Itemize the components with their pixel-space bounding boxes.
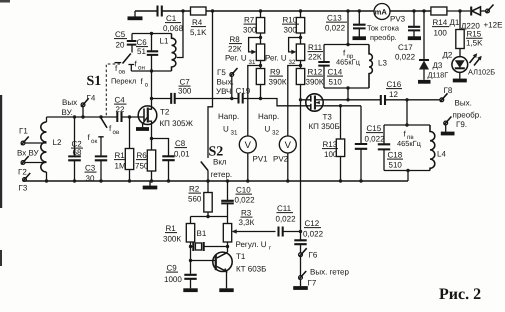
- svg-text:R11: R11: [308, 43, 323, 52]
- svg-text:22: 22: [116, 105, 125, 114]
- svg-text:V: V: [245, 140, 252, 151]
- svg-text:mA: mA: [375, 7, 388, 16]
- svg-text:Г6: Г6: [309, 251, 318, 260]
- ground (C9): [183, 288, 197, 292]
- svg-text:C12: C12: [305, 219, 320, 228]
- terminal G2: [21, 161, 25, 165]
- node R14/D1/R15: [458, 9, 461, 12]
- T3 drain line to C16: [323, 99, 381, 101]
- terminal G8 (Vykh preobr): [440, 98, 444, 102]
- svg-text:L2: L2: [53, 138, 62, 147]
- node R6/rail: [150, 179, 153, 182]
- svg-text:0,068: 0,068: [163, 24, 184, 33]
- resistor R15: [456, 30, 464, 49]
- L3 tank stub to drain line: [347, 88, 349, 100]
- capacitor C14: [323, 45, 325, 63]
- L3 tank top wire: [324, 44, 369, 46]
- L4 tank feed wire: [406, 100, 408, 125]
- svg-text:C7: C7: [180, 78, 191, 87]
- svg-text:R12: R12: [308, 68, 323, 77]
- svg-text:1,5K: 1,5K: [466, 38, 483, 47]
- svg-text:PV3: PV3: [390, 15, 406, 24]
- svg-text:Т1: Т1: [236, 252, 246, 261]
- svg-text:R3: R3: [241, 209, 252, 218]
- crystal B1: [191, 246, 194, 248]
- svg-text:C17: C17: [398, 43, 413, 52]
- node rail/R7: [259, 9, 262, 12]
- inductor L2: [46, 117, 48, 122]
- svg-text:C18: C18: [388, 151, 403, 160]
- node rail/L3 tank: [346, 9, 349, 12]
- svg-text:Перекл: Перекл: [111, 77, 136, 86]
- svg-text:750: 750: [135, 162, 149, 171]
- wire R15 branch: [459, 11, 461, 30]
- node R3/B1/T1 collector: [226, 245, 229, 248]
- terminal G3: [23, 178, 27, 182]
- svg-text:C13: C13: [327, 14, 342, 23]
- svg-text:R8: R8: [230, 35, 241, 44]
- svg-text:1М: 1М: [115, 162, 126, 171]
- scan edge artifacts: [0, 95, 2, 208]
- svg-text:68: 68: [73, 148, 82, 157]
- svg-text:0,022: 0,022: [235, 196, 256, 205]
- capacitor C1: [158, 6, 162, 17]
- svg-text:R14: R14: [433, 18, 448, 27]
- svg-text:ок: ок: [91, 138, 97, 145]
- svg-text:560: 560: [188, 195, 202, 204]
- svg-text:R9: R9: [270, 68, 281, 77]
- svg-text:5,1K: 5,1K: [190, 28, 207, 37]
- svg-text:КП 305Ж: КП 305Ж: [160, 119, 194, 128]
- svg-text:АЛ102Б: АЛ102Б: [468, 68, 495, 77]
- svg-text:S1: S1: [87, 74, 102, 89]
- capacitor C16: [381, 95, 385, 105]
- wire T2 drain column: [151, 71, 153, 107]
- svg-text:C3: C3: [85, 164, 96, 173]
- ground pad G8 (LED): [453, 79, 467, 83]
- svg-text:Г8: Г8: [444, 86, 453, 95]
- wire C16 to G8: [385, 99, 440, 101]
- node PV1/rail: [246, 179, 249, 182]
- terminal G7: [299, 276, 303, 280]
- node rail/D3: [422, 9, 425, 12]
- svg-text:C5: C5: [115, 30, 126, 39]
- node rail/C13: [358, 9, 361, 12]
- svg-text:Т3: Т3: [323, 113, 333, 122]
- svg-text:C11: C11: [277, 204, 292, 213]
- svg-text:L1: L1: [160, 37, 169, 46]
- svg-text:0,022: 0,022: [303, 230, 324, 239]
- svg-text:510: 510: [329, 78, 343, 87]
- wire top rail: [206, 10, 374, 12]
- svg-text:U: U: [265, 125, 271, 134]
- svg-text:В1: В1: [197, 229, 207, 238]
- svg-text:R13: R13: [323, 140, 338, 149]
- svg-text:C10: C10: [236, 186, 251, 195]
- svg-text:PV2: PV2: [273, 155, 289, 164]
- resistor R7: [260, 11, 262, 18]
- svg-text:ВУ.: ВУ.: [62, 108, 73, 117]
- svg-text:100: 100: [324, 150, 338, 159]
- inductor L3: [369, 45, 372, 89]
- svg-text:R7: R7: [244, 16, 255, 25]
- svg-text:Рис. 2: Рис. 2: [439, 286, 481, 303]
- svg-text:R15: R15: [467, 30, 482, 39]
- svg-text:32: 32: [272, 130, 279, 137]
- svg-text:гетер.: гетер.: [211, 170, 233, 179]
- wire C11 to C12 node: [283, 231, 301, 233]
- L1 tank bottom wire: [131, 70, 171, 72]
- diode D3 D118G: [423, 11, 425, 60]
- svg-text:C4: C4: [115, 96, 126, 105]
- svg-text:390К: 390К: [306, 78, 324, 87]
- svg-text:0,01: 0,01: [174, 150, 190, 159]
- wire G6 to G7: [300, 257, 302, 276]
- wire C7 to C19: [175, 98, 239, 100]
- node R9 bottom: [259, 97, 262, 100]
- svg-text:C1: C1: [166, 14, 177, 23]
- svg-text:V: V: [285, 140, 292, 151]
- node C10/rail: [226, 179, 229, 182]
- svg-text:R1: R1: [115, 151, 126, 160]
- terminal G6: [299, 253, 303, 257]
- node C1/R4/L1-tap: [181, 9, 184, 12]
- capacitor C6 (middle branch): [151, 34, 153, 52]
- svg-text:20: 20: [116, 41, 125, 50]
- svg-text:22К: 22К: [228, 45, 242, 54]
- svg-text:Г7: Г7: [308, 279, 317, 288]
- wire top rail left: [135, 10, 158, 12]
- svg-text:R6: R6: [137, 151, 148, 160]
- svg-text:C8: C8: [175, 139, 186, 148]
- node T2 source: [150, 137, 153, 140]
- svg-text:C2: C2: [72, 140, 83, 149]
- resistor R13: [339, 104, 342, 107]
- svg-text:Д118Г: Д118Г: [428, 71, 449, 80]
- svg-text:0,022: 0,022: [276, 215, 297, 224]
- svg-text:Г3: Г3: [19, 184, 28, 193]
- node rail/R10: [299, 9, 302, 12]
- svg-text:Г4: Г4: [87, 94, 96, 103]
- capacitor C9: [184, 275, 196, 279]
- node C8/rail: [167, 179, 170, 182]
- inductor L1: [172, 34, 176, 72]
- svg-text:100: 100: [434, 29, 448, 38]
- inductor L4: [430, 125, 435, 171]
- capacitor C10: [227, 181, 229, 201]
- svg-text:КП 350Б: КП 350Б: [309, 122, 340, 131]
- node C2/rail: [73, 179, 76, 182]
- input line Vykh VU: [47, 116, 118, 118]
- svg-text:U: U: [223, 125, 229, 134]
- svg-text:C16: C16: [387, 80, 402, 89]
- svg-text:Вых.: Вых.: [217, 78, 234, 87]
- svg-text:0,022: 0,022: [365, 135, 386, 144]
- L1 tank top wire: [132, 33, 172, 35]
- svg-text:Г9.: Г9.: [456, 120, 467, 129]
- wire S2 feed from +12V rail: [208, 11, 213, 158]
- capacitor C12: [300, 232, 302, 241]
- svg-text:390К: 390К: [269, 78, 287, 87]
- capacitor C18: [383, 125, 385, 144]
- capacitor C5 (left branch): [131, 34, 133, 42]
- wire: [447, 10, 470, 12]
- node C3/rail: [99, 179, 102, 182]
- L3 tank bottom wire: [324, 87, 369, 89]
- svg-text:преобр.: преобр.: [370, 33, 397, 42]
- diode D1 D220: [470, 7, 472, 16]
- capacitor C8: [152, 139, 169, 157]
- transistor T2 KP305Zh: [138, 106, 157, 125]
- svg-text:Ток стока: Ток стока: [367, 24, 400, 33]
- ground symbol on rail: [149, 181, 151, 186]
- capacitor C4: [117, 112, 121, 122]
- LED D2 AL102B: [452, 57, 468, 73]
- svg-text:Г1: Г1: [19, 127, 28, 136]
- ground rail (bottom common): [25, 180, 409, 182]
- switch S1a fov/fon: [123, 54, 131, 64]
- svg-text:+12Е: +12Е: [484, 21, 503, 30]
- svg-text:R2: R2: [189, 185, 200, 194]
- node R1/B1: [189, 245, 192, 248]
- svg-text:0,022: 0,022: [395, 53, 416, 62]
- svg-text:Напр.: Напр.: [218, 112, 239, 121]
- svg-text:0,022: 0,022: [325, 24, 346, 33]
- capacitor C3: [95, 156, 107, 160]
- capacitor C17: [413, 11, 415, 27]
- svg-text:ов: ов: [113, 129, 120, 136]
- capacitor C13: [358, 11, 360, 25]
- svg-text:465кГц: 465кГц: [336, 58, 361, 67]
- rail to L4 tank: [407, 171, 409, 182]
- L4 tank bottom wire: [384, 170, 430, 172]
- potentiometer R11: [300, 33, 302, 44]
- svg-text:31: 31: [231, 130, 238, 137]
- ground (C17): [408, 36, 421, 40]
- svg-text:465кГц: 465кГц: [397, 139, 422, 148]
- svg-text:Вых: Вых: [62, 98, 77, 107]
- wire C19 to T3 gate 1: [243, 99, 311, 106]
- resistor R10: [300, 11, 302, 18]
- svg-text:1000: 1000: [164, 275, 182, 284]
- terminal G1: [21, 141, 25, 145]
- wire top rail right: [390, 10, 431, 12]
- svg-text:Вых. гетер: Вых. гетер: [310, 268, 349, 277]
- S1 mechanical link (dashed): [106, 64, 120, 117]
- ground pad (G9): [441, 132, 455, 136]
- node L2/rail: [45, 179, 48, 182]
- wire base feed: [190, 247, 192, 274]
- L3 tank feed wire: [347, 11, 349, 45]
- svg-text:510: 510: [389, 161, 403, 170]
- capacitor C19: [239, 94, 243, 104]
- terminal G5 (Vykh UVCh): [231, 76, 233, 99]
- ammeter PV3: [374, 4, 390, 20]
- svg-text:300: 300: [178, 87, 192, 96]
- svg-text:Рег. U: Рег. U: [225, 54, 247, 63]
- svg-text:L3: L3: [378, 59, 387, 68]
- capacitor C7: [152, 98, 172, 100]
- svg-text:PV1: PV1: [253, 155, 269, 164]
- wire heterodyne injection to T3 gate 1: [300, 100, 302, 232]
- svg-text:г: г: [269, 245, 272, 252]
- svg-text:Д2: Д2: [443, 51, 453, 60]
- svg-text:он: он: [138, 65, 145, 72]
- resistor R2: [207, 181, 209, 193]
- voltmeter PV2: [288, 66, 301, 137]
- svg-text:C14: C14: [328, 68, 343, 77]
- switch S2: [201, 162, 208, 171]
- node drain/C7: [150, 97, 153, 100]
- svg-text:300: 300: [284, 26, 298, 35]
- capacitor C2: [74, 117, 76, 156]
- svg-text:Напр.: Напр.: [258, 112, 279, 121]
- terminal G9: [444, 121, 448, 125]
- LED emission arrows: [470, 56, 476, 64]
- ground (top-left, C1 return): [134, 11, 136, 17]
- svg-text:22К: 22К: [308, 53, 322, 62]
- svg-text:Д3: Д3: [433, 61, 443, 70]
- svg-text:R10: R10: [283, 16, 298, 25]
- capacitor C15: [360, 106, 362, 144]
- svg-text:51: 51: [137, 47, 146, 56]
- switch S1b fok: [99, 115, 102, 118]
- ground (C13): [353, 36, 367, 40]
- svg-text:R1: R1: [166, 224, 177, 233]
- transistor T1 KT603B: [213, 252, 232, 271]
- svg-text:L4: L4: [437, 150, 446, 159]
- ground (T2 substrate): [136, 127, 149, 131]
- svg-text:300К: 300К: [163, 235, 181, 244]
- potentiometer R8: [260, 33, 262, 44]
- resistor R1 1M: [129, 117, 131, 149]
- resistor R14: [431, 7, 447, 15]
- node G4 tap: [81, 115, 84, 118]
- svg-text:Регул. U: Регул. U: [236, 240, 267, 249]
- node T2 gate / R1: [128, 115, 131, 118]
- svg-text:Вх ВУ: Вх ВУ: [17, 149, 40, 158]
- svg-text:Д1: Д1: [450, 18, 460, 27]
- resistor R1 300K: [190, 217, 192, 224]
- oscillator supply node wire: [191, 216, 228, 218]
- svg-text:C9: C9: [167, 264, 178, 273]
- ground (T1 emitter): [219, 288, 233, 292]
- terminal +12V: [486, 9, 490, 13]
- node PV2/rail: [286, 179, 289, 182]
- svg-text:преобр.: преобр.: [453, 111, 482, 120]
- svg-text:КТ 603Б: КТ 603Б: [236, 265, 266, 274]
- potentiometer R3: [227, 217, 229, 224]
- svg-text:R4: R4: [192, 18, 203, 27]
- svg-text:Рег. U: Рег. U: [265, 54, 287, 63]
- wire: [459, 49, 461, 57]
- node R1/rail: [128, 179, 131, 182]
- svg-text:f: f: [141, 77, 144, 86]
- svg-text:Вкл: Вкл: [213, 158, 227, 167]
- node rail/S2 feed: [211, 9, 214, 12]
- svg-text:ов: ов: [119, 69, 126, 76]
- terminal G4: [82, 107, 84, 118]
- svg-text:Г2: Г2: [18, 168, 27, 177]
- resistor R4: [191, 7, 207, 15]
- resistor R6: [151, 139, 153, 151]
- svg-text:C15: C15: [367, 124, 382, 133]
- L4 tank top wire: [384, 124, 430, 126]
- T3 source line: [323, 105, 361, 107]
- capacitor C11: [279, 227, 283, 237]
- svg-text:о: о: [145, 82, 149, 89]
- ground (G7): [300, 279, 302, 286]
- node rail/C17: [412, 9, 415, 12]
- svg-text:УВЧ: УВЧ: [216, 87, 231, 96]
- svg-text:C6: C6: [137, 38, 148, 47]
- transistor T3 KP350B: [306, 94, 323, 111]
- wire: [162, 10, 191, 12]
- svg-text:3,3К: 3,3К: [239, 218, 255, 227]
- svg-text:Г5: Г5: [217, 68, 226, 77]
- resistor R9: [260, 61, 262, 69]
- resistor R12: [300, 61, 302, 69]
- ground (D3): [418, 80, 431, 84]
- wire L1 tap to +12V node: [177, 11, 183, 58]
- svg-text:Вых.: Вых.: [455, 99, 472, 108]
- voltmeter PV1: [248, 66, 261, 137]
- svg-text:12: 12: [389, 90, 398, 99]
- svg-text:Т2: Т2: [160, 108, 170, 117]
- svg-text:300: 300: [243, 26, 257, 35]
